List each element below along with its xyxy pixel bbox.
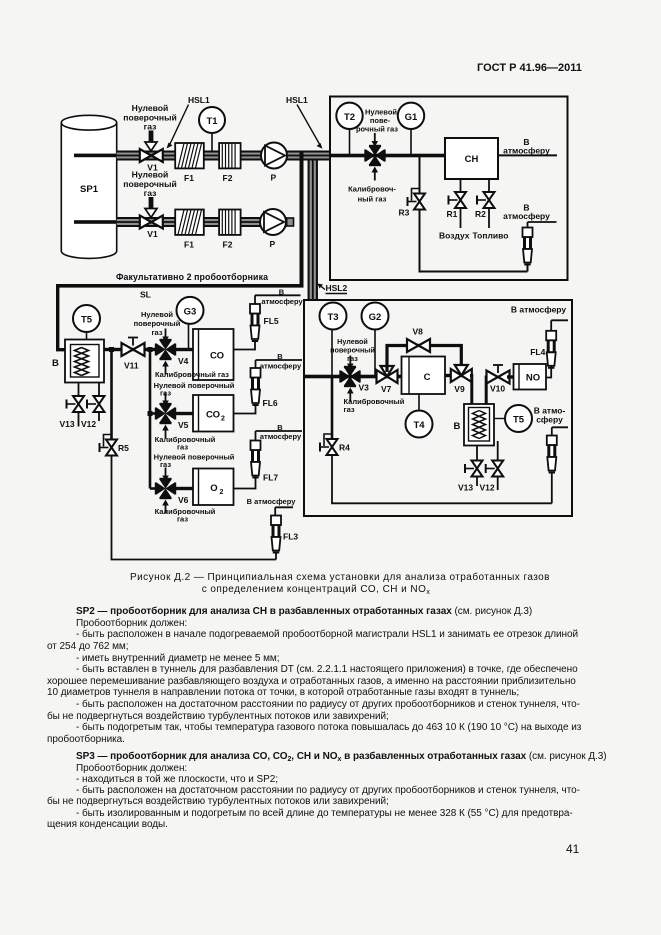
arrow: zero gas inlet row 2 <box>145 197 157 218</box>
svg-text:газ: газ <box>344 405 355 414</box>
regulator valve R2 <box>475 192 495 219</box>
4-way calibration valve V5 <box>156 404 189 430</box>
svg-text:P: P <box>270 239 276 249</box>
svg-text:поверочный: поверочный <box>134 319 181 328</box>
svg-text:P: P <box>271 173 277 183</box>
valve V11 <box>122 338 145 371</box>
svg-text:T3: T3 <box>327 312 338 323</box>
gas analyzer sensor G1 <box>398 103 424 154</box>
svg-text:G3: G3 <box>184 306 197 317</box>
wire: V4 to CO analyzer <box>175 348 194 351</box>
wire: main line to CH <box>330 154 445 158</box>
temperature sensor T2 <box>336 103 362 154</box>
wire: vertical heated pipe HSL2 <box>308 161 319 301</box>
enclosure box: HSL2 analyzer cabinet <box>304 300 572 516</box>
body text block <box>47 606 631 830</box>
svg-text:Калибровоч-: Калибровоч- <box>348 185 396 194</box>
flow meter FL3 <box>271 516 298 553</box>
svg-text:Нулевой: Нулевой <box>132 103 169 113</box>
label: calibration gas below V4 <box>155 370 229 379</box>
analyzer NO <box>514 364 547 390</box>
svg-text:В: В <box>52 358 59 369</box>
wire: R4 drop line <box>331 378 334 440</box>
header GOST number <box>477 62 582 74</box>
wire: air line below R1 <box>460 208 462 228</box>
arrow: calibration gas into V5 bottom <box>162 425 169 439</box>
svg-text:Топливо: Топливо <box>473 231 509 241</box>
arrow: zero gas into V (top box) <box>372 133 379 147</box>
label: calibration gas below V6 <box>155 507 216 524</box>
arrow: zero gas into V6 <box>162 468 169 482</box>
temperature sensor T4 <box>406 394 433 438</box>
svg-text:Нулевой: Нулевой <box>141 310 173 319</box>
svg-text:R3: R3 <box>399 208 410 218</box>
svg-text:R1: R1 <box>447 209 458 219</box>
svg-text:атмосферу: атмосферу <box>503 211 550 221</box>
label: zero gas above V5 <box>154 381 235 398</box>
wire: row 2 pipe end stub <box>287 218 294 226</box>
label HSL1 first with pointer <box>167 95 211 149</box>
node: junction at V5 row <box>148 411 153 416</box>
svg-text:FL3: FL3 <box>283 532 298 542</box>
flow meter FL4 <box>530 331 556 368</box>
svg-text:V6: V6 <box>178 495 189 505</box>
label: zero gas (top box) <box>356 108 398 134</box>
arrow: calibration gas into valve bottom <box>372 167 379 181</box>
pump P row 1 <box>261 143 287 183</box>
4-way calibration valve V6 <box>156 479 189 505</box>
4-way calibration valve V3 <box>340 367 369 393</box>
svg-text:V11: V11 <box>124 361 139 371</box>
valve V1 row 1 <box>140 149 163 173</box>
svg-text:V5: V5 <box>178 420 189 430</box>
svg-text:рочный газ: рочный газ <box>356 125 398 134</box>
svg-text:2: 2 <box>220 489 224 496</box>
svg-text:HSL1: HSL1 <box>286 95 308 105</box>
svg-text:R2: R2 <box>475 209 486 219</box>
4-way calibration valve V4 <box>156 340 189 366</box>
drain valve V13 (HSL2 cooler) <box>458 446 483 493</box>
svg-text:Калибровочный газ: Калибровочный газ <box>155 370 229 379</box>
svg-text:V8: V8 <box>413 327 424 337</box>
wire: R3 to bottom collector <box>419 209 528 272</box>
svg-text:T1: T1 <box>206 116 218 127</box>
svg-text:СО: СО <box>210 351 224 362</box>
svg-text:газ: газ <box>177 515 188 524</box>
label: to atmosphere (right vent) <box>534 406 568 436</box>
label HSL1 second with pointer <box>286 95 323 149</box>
svg-text:газ: газ <box>151 328 162 337</box>
svg-text:V10: V10 <box>490 384 505 394</box>
flow meter (right vent rotameter) <box>547 436 557 473</box>
arrow: calibration gas into V6 bottom <box>162 500 169 514</box>
label: to atmosphere (CH outlet) <box>503 137 550 156</box>
wire: NO outlet to FL4 <box>546 366 551 378</box>
label HSL2 with arrow <box>318 283 348 294</box>
wire: V9 to cooler B <box>470 376 472 406</box>
svg-text:G1: G1 <box>405 112 418 123</box>
svg-text:NO: NO <box>526 373 540 384</box>
label: optional 2 probes <box>116 272 268 282</box>
temperature sensor T3 <box>320 303 347 376</box>
svg-text:T2: T2 <box>344 112 355 123</box>
filter F2 row 2 <box>219 210 241 250</box>
figure caption <box>0 572 661 583</box>
svg-text:атмосферу: атмосферу <box>261 297 303 306</box>
svg-text:V9: V9 <box>454 384 465 394</box>
svg-text:В атмосферу: В атмосферу <box>511 305 567 315</box>
svg-text:SP1: SP1 <box>80 184 99 195</box>
arrow: calibration gas into V4 bottom <box>162 361 169 375</box>
label: to atmosphere above FL5 <box>255 288 303 307</box>
label: calibration gas below V3 <box>344 397 405 414</box>
svg-text:С: С <box>424 372 431 383</box>
svg-text:FL6: FL6 <box>263 398 278 408</box>
svg-text:HSL1: HSL1 <box>188 95 210 105</box>
svg-text:V12: V12 <box>81 419 96 429</box>
svg-text:V3: V3 <box>359 383 370 393</box>
svg-text:газ: газ <box>144 188 157 198</box>
valve V1 row 2 <box>140 216 163 240</box>
arrow: calibration gas into V3 bottom <box>347 388 354 402</box>
wire: SL left down pipe <box>56 284 66 351</box>
pump P row 2 <box>260 209 286 249</box>
svg-text:F1: F1 <box>184 173 194 183</box>
svg-text:СН: СН <box>465 154 479 165</box>
svg-text:атмосферу: атмосферу <box>260 432 302 441</box>
svg-text:V13: V13 <box>458 483 473 493</box>
drain valve V12 (SL cooler) <box>81 383 105 430</box>
svg-text:FL5: FL5 <box>264 316 279 326</box>
svg-text:ный газ: ный газ <box>358 195 387 204</box>
svg-text:газ: газ <box>347 354 358 363</box>
svg-text:T4: T4 <box>413 420 425 431</box>
wire: V10 to NO analyzer <box>507 375 514 378</box>
label: to atmosphere above FL7 <box>256 423 303 441</box>
label SL <box>140 290 151 300</box>
label: to atmosphere above FL3 <box>247 497 297 516</box>
svg-text:V12: V12 <box>480 483 495 493</box>
label: zero gas above V4 <box>134 310 181 337</box>
temperature sensor T1 <box>199 107 225 151</box>
svg-text:V4: V4 <box>178 356 189 366</box>
wire: probe line 2 inside SP1 <box>74 220 117 224</box>
wire: CO2 outlet to FL6 <box>234 404 256 414</box>
arrow: zero gas into V3 <box>347 356 354 370</box>
sample probe cylinder SP1 <box>61 115 116 258</box>
filter F1 row 2 <box>175 210 204 250</box>
filter F2 row 1 <box>219 143 241 183</box>
analyzer O2 <box>193 469 234 506</box>
valve V10 <box>487 365 510 394</box>
temperature sensor T5 (HSL2) <box>494 405 532 432</box>
svg-text:V7: V7 <box>381 384 392 394</box>
wire: O2 outlet to FL7 <box>234 474 256 489</box>
arrow: zero gas inlet row 1 <box>145 131 157 152</box>
svg-text:газ: газ <box>177 443 188 452</box>
flow meter FL5 <box>250 304 279 341</box>
svg-text:V13: V13 <box>60 419 75 429</box>
wire: CO outlet to FL5 <box>234 340 256 350</box>
svg-text:сферу: сферу <box>536 415 563 425</box>
wire: vertical feed to SL section <box>300 152 304 286</box>
analyzer CO <box>193 329 234 380</box>
label: to atmosphere above FL6 <box>256 352 303 371</box>
wire: R5 drop line <box>110 350 113 440</box>
svg-text:T5: T5 <box>81 315 93 326</box>
3-way valve V9 <box>451 365 472 394</box>
wire: cooler B to V10 <box>486 377 490 404</box>
svg-text:атмосферу: атмосферу <box>260 362 302 371</box>
svg-text:R4: R4 <box>339 443 350 453</box>
valve V8 on bypass <box>407 327 430 353</box>
node: junction to V5/V6 branch <box>148 347 153 352</box>
wire: SL main line B to V4 <box>104 348 158 351</box>
label: to atmosphere above FL4 <box>511 305 568 331</box>
gas analyzer sensor G3 <box>177 297 204 348</box>
wire: probe line 1 inside SP1 <box>74 154 117 158</box>
wire: heated sample pipe row 1 (HSL1) <box>117 151 330 161</box>
label: to atmosphere (top box vent) <box>503 203 556 228</box>
svg-text:Факультативно 2 пробоотборника: Факультативно 2 пробоотборника <box>116 272 268 282</box>
node: junction to R5 <box>109 347 114 352</box>
regulator valve R3 <box>399 189 426 218</box>
4-way calibration valve (top box) <box>365 146 385 166</box>
enclosure box: CH analyzer cabinet <box>330 97 568 281</box>
svg-text:газ: газ <box>144 122 157 132</box>
wire: R3 branch <box>419 156 421 195</box>
regulator valve R4 <box>320 434 350 455</box>
svg-text:О: О <box>210 483 217 494</box>
drain valve V12 (HSL2 cooler) <box>480 441 504 493</box>
wire: bypass over converter <box>387 346 461 373</box>
filter F1 row 1 <box>175 143 204 183</box>
svg-text:V1: V1 <box>147 229 158 239</box>
cooler B (HSL2) <box>454 404 495 446</box>
svg-text:FL7: FL7 <box>263 473 278 483</box>
drain valve V13 (SL cooler) <box>60 383 85 430</box>
svg-text:В атмосферу: В атмосферу <box>247 497 297 506</box>
svg-text:F2: F2 <box>223 173 233 183</box>
wire: CH fuel feed <box>488 179 490 193</box>
svg-text:В: В <box>454 421 461 432</box>
svg-text:R5: R5 <box>118 443 129 453</box>
svg-text:T5: T5 <box>513 415 525 426</box>
wire: fuel line below R2 <box>488 208 490 228</box>
converter C <box>402 357 446 395</box>
wire: HSL2 main line <box>304 375 402 379</box>
flow meter FL6 <box>251 368 278 408</box>
label: calibration gas (top box) <box>348 185 396 204</box>
wire: C outlet to V9 <box>445 374 451 377</box>
page number <box>566 842 579 856</box>
flow meter FL7 <box>251 441 279 483</box>
flow meter (top box vent rotameter) <box>523 228 533 265</box>
svg-text:F1: F1 <box>184 240 194 250</box>
regulator valve R5 <box>100 435 130 456</box>
analyzer CO2 <box>193 395 234 432</box>
svg-text:Воздух: Воздух <box>439 231 470 241</box>
svg-text:G2: G2 <box>369 312 382 323</box>
svg-text:Нулевой: Нулевой <box>132 170 169 180</box>
label: air / fuel <box>439 231 508 241</box>
label: zero gas above V6 <box>154 453 235 470</box>
regulator valve R1 <box>447 192 467 219</box>
cooler B (SL section) <box>52 340 104 383</box>
label: calibration gas below V5 <box>155 435 216 452</box>
svg-text:HSL2: HSL2 <box>326 283 348 293</box>
temperature sensor T5 (SL section) <box>73 305 100 341</box>
svg-text:СО: СО <box>206 410 220 421</box>
wire: heated sample pipe row 2 <box>117 217 287 227</box>
svg-text:F2: F2 <box>223 240 233 250</box>
3-way valve V7 <box>377 366 398 394</box>
label: zero gas row 2 <box>123 170 176 199</box>
wire: V6 to O2 analyzer <box>175 487 194 490</box>
svg-text:2: 2 <box>221 416 225 423</box>
label: zero gas row 1 <box>123 103 176 132</box>
gas analyzer sensor G2 <box>362 303 389 376</box>
analyzer CH <box>445 138 498 179</box>
wire: R5 to FL3 bottom line <box>111 455 276 560</box>
arrow: zero gas into V5 <box>162 393 169 407</box>
svg-text:атмосферу: атмосферу <box>503 146 550 156</box>
svg-text:FL4: FL4 <box>530 347 545 357</box>
arrow: zero gas into V4 <box>162 329 169 343</box>
svg-text:SL: SL <box>140 290 151 300</box>
wire: SL top pipe <box>56 284 304 288</box>
wire: CH air feed <box>460 179 462 193</box>
wire: V5 to CO2 analyzer <box>175 412 194 415</box>
wire: CH exhaust to atmosphere <box>498 154 557 156</box>
label: zero gas above V3 <box>330 337 375 363</box>
wire: branch line to V5 and V6 <box>150 350 156 489</box>
wire: R4 to bottom collector and right rotameter <box>331 455 552 504</box>
